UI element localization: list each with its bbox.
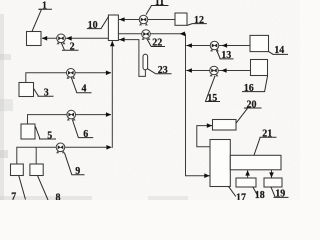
svg-text:5: 5 <box>47 130 52 141</box>
svg-text:9: 9 <box>75 166 80 177</box>
svg-text:21: 21 <box>262 129 272 140</box>
svg-text:23: 23 <box>158 65 168 76</box>
svg-text:13: 13 <box>221 50 231 61</box>
svg-text:17: 17 <box>236 192 246 200</box>
svg-text:7: 7 <box>11 191 16 200</box>
svg-text:1: 1 <box>42 1 47 12</box>
svg-text:22: 22 <box>152 37 162 48</box>
svg-text:20: 20 <box>247 99 257 110</box>
svg-text:18: 18 <box>255 190 265 200</box>
svg-text:12: 12 <box>194 15 204 26</box>
svg-text:19: 19 <box>275 189 285 200</box>
svg-text:6: 6 <box>83 129 88 140</box>
svg-text:4: 4 <box>82 84 87 95</box>
svg-text:11: 11 <box>155 0 164 8</box>
svg-text:10: 10 <box>88 20 98 31</box>
svg-text:8: 8 <box>56 193 61 200</box>
svg-text:14: 14 <box>274 45 284 56</box>
svg-text:16: 16 <box>244 83 254 94</box>
svg-text:2: 2 <box>70 42 75 53</box>
svg-text:15: 15 <box>207 93 217 104</box>
svg-text:3: 3 <box>44 88 49 99</box>
